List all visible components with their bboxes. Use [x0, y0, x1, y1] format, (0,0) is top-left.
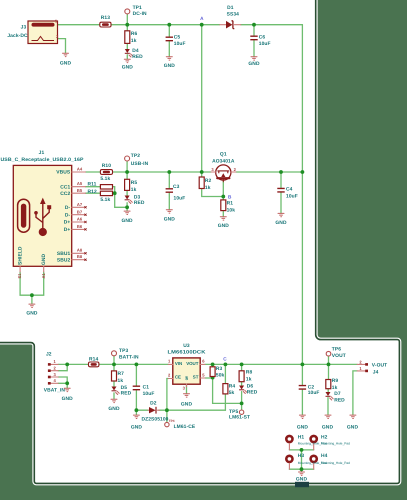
svg-text:10uF: 10uF — [308, 390, 320, 396]
svg-text:C3: C3 — [173, 184, 180, 190]
svg-text:D5: D5 — [121, 385, 128, 391]
svg-text:VBUS: VBUS — [56, 170, 71, 176]
svg-text:1k: 1k — [332, 385, 338, 391]
svg-text:10uF: 10uF — [286, 193, 298, 199]
svg-text:R9: R9 — [332, 378, 339, 384]
svg-text:10uF: 10uF — [259, 41, 271, 47]
svg-text:SBU2: SBU2 — [57, 257, 71, 263]
svg-text:TP5: TP5 — [229, 409, 238, 415]
svg-text:1k: 1k — [131, 187, 137, 193]
svg-text:A1: A1 — [41, 273, 46, 279]
svg-text:GND: GND — [122, 218, 134, 224]
svg-text:H3: H3 — [298, 453, 305, 459]
svg-text:C: C — [223, 357, 227, 362]
svg-text:R11: R11 — [88, 181, 97, 187]
svg-text:10k: 10k — [227, 208, 236, 214]
svg-text:V-OUT: V-OUT — [372, 362, 387, 368]
svg-text:GND: GND — [62, 396, 74, 402]
svg-text:D-: D- — [65, 205, 71, 211]
svg-text:USB_C_Receptacle_USB2.0_16P: USB_C_Receptacle_USB2.0_16P — [1, 157, 85, 163]
svg-text:D2: D2 — [150, 401, 157, 407]
svg-text:LM66100DCK: LM66100DCK — [168, 350, 206, 356]
svg-text:CC1: CC1 — [60, 184, 70, 190]
svg-text:CE: CE — [175, 375, 181, 380]
svg-text:SS34: SS34 — [227, 12, 240, 18]
svg-text:TP3: TP3 — [119, 348, 128, 354]
svg-text:5.1k: 5.1k — [100, 197, 110, 203]
svg-text:U3: U3 — [183, 343, 190, 349]
svg-text:D-: D- — [65, 212, 71, 218]
svg-text:VIN: VIN — [175, 361, 182, 366]
svg-text:SHIELD: SHIELD — [18, 246, 24, 265]
svg-text:R3: R3 — [216, 366, 223, 372]
svg-text:RED: RED — [247, 390, 258, 396]
svg-text:USB-IN: USB-IN — [131, 161, 149, 167]
svg-text:1k: 1k — [118, 378, 124, 384]
svg-text:10uF: 10uF — [143, 391, 155, 397]
svg-text:GND: GND — [164, 63, 176, 69]
svg-text:B8: B8 — [77, 254, 83, 259]
svg-text:10uF: 10uF — [174, 196, 186, 202]
svg-text:R4: R4 — [229, 384, 236, 390]
svg-text:GND: GND — [108, 406, 120, 412]
svg-text:A8: A8 — [77, 248, 83, 253]
svg-text:SBU1: SBU1 — [57, 251, 71, 257]
svg-text:GND: GND — [122, 65, 134, 71]
svg-text:S1: S1 — [17, 273, 22, 279]
svg-text:A6: A6 — [77, 217, 83, 222]
svg-text:LM61-CE: LM61-CE — [174, 424, 196, 430]
svg-text:RED: RED — [334, 398, 345, 404]
svg-text:B5: B5 — [77, 188, 83, 193]
svg-text:1k: 1k — [205, 185, 211, 191]
svg-text:GND: GND — [322, 425, 334, 431]
svg-text:5k: 5k — [229, 390, 235, 396]
svg-text:GND: GND — [26, 311, 38, 317]
svg-text:RED: RED — [132, 54, 143, 60]
svg-text:C2: C2 — [308, 384, 315, 390]
svg-text:D7: D7 — [334, 391, 341, 397]
svg-text:TP6: TP6 — [332, 347, 341, 353]
svg-text:§: § — [185, 375, 188, 381]
svg-text:DC-IN: DC-IN — [133, 11, 147, 17]
svg-text:R5: R5 — [131, 180, 138, 186]
svg-text:D6: D6 — [247, 383, 254, 389]
svg-text:Mounting_Hole_Pad: Mounting_Hole_Pad — [321, 441, 350, 445]
svg-text:GND: GND — [131, 425, 143, 431]
svg-text:TP4: TP4 — [169, 419, 175, 423]
svg-text:DZ2S05100: DZ2S05100 — [142, 416, 169, 422]
svg-text:H1: H1 — [298, 434, 305, 440]
svg-text:H4: H4 — [321, 453, 328, 459]
svg-text:GND: GND — [60, 61, 72, 67]
svg-text:J2: J2 — [46, 352, 52, 358]
svg-text:D4: D4 — [132, 48, 139, 54]
svg-text:GND: GND — [275, 220, 287, 226]
svg-text:VOUT: VOUT — [186, 361, 199, 366]
svg-text:ST: ST — [193, 375, 199, 380]
svg-text:B6: B6 — [77, 224, 83, 229]
svg-text:A4: A4 — [77, 166, 83, 171]
svg-text:R1: R1 — [227, 201, 234, 207]
svg-text:R12: R12 — [88, 189, 97, 195]
svg-text:R6: R6 — [131, 31, 138, 37]
svg-text:D3: D3 — [134, 194, 141, 200]
svg-text:R8: R8 — [246, 369, 253, 375]
svg-text:GND: GND — [41, 253, 47, 265]
svg-text:CC2: CC2 — [60, 191, 70, 197]
svg-text:A5: A5 — [77, 181, 83, 186]
svg-text:D+: D+ — [64, 220, 71, 226]
svg-text:RED: RED — [134, 200, 145, 206]
svg-text:R2: R2 — [205, 178, 212, 184]
svg-text:H2: H2 — [321, 434, 328, 440]
svg-text:R10: R10 — [102, 163, 111, 169]
svg-text:R13: R13 — [101, 15, 110, 21]
svg-text:AO3401A: AO3401A — [212, 159, 235, 165]
svg-text:C1: C1 — [143, 385, 150, 391]
svg-text:R7: R7 — [118, 371, 125, 377]
svg-text:GND: GND — [248, 61, 260, 67]
svg-text:B7: B7 — [77, 209, 83, 214]
svg-text:C4: C4 — [286, 187, 293, 193]
svg-text:1k: 1k — [131, 38, 137, 44]
svg-text:GND: GND — [164, 216, 176, 222]
svg-text:GND: GND — [218, 223, 230, 229]
svg-text:5.1k: 5.1k — [100, 176, 110, 182]
svg-text:Mounting_Hole_Pad: Mounting_Hole_Pad — [321, 461, 350, 465]
svg-text:GND: GND — [347, 425, 359, 431]
svg-text:VOUT: VOUT — [332, 353, 346, 359]
svg-text:Q1: Q1 — [220, 151, 227, 157]
svg-text:GND: GND — [297, 425, 309, 431]
svg-text:VBAT_IN: VBAT_IN — [44, 388, 66, 394]
svg-text:C5: C5 — [174, 35, 181, 41]
svg-text:RED: RED — [121, 391, 132, 397]
svg-text:C6: C6 — [259, 34, 266, 40]
svg-text:R14: R14 — [89, 356, 98, 362]
svg-text:10uF: 10uF — [174, 41, 186, 47]
svg-text:D+: D+ — [64, 227, 71, 233]
svg-text:J4: J4 — [373, 370, 379, 376]
svg-text:TP1: TP1 — [133, 5, 142, 11]
svg-text:1k: 1k — [246, 376, 252, 382]
svg-text:GND: GND — [181, 402, 193, 408]
svg-text:50k: 50k — [216, 373, 225, 379]
svg-text:BATT-IN: BATT-IN — [119, 354, 139, 360]
svg-text:J1: J1 — [39, 150, 45, 156]
svg-text:D1: D1 — [227, 5, 234, 11]
svg-text:A7: A7 — [77, 202, 83, 207]
svg-text:TP2: TP2 — [131, 153, 140, 159]
svg-text:LM61-ST: LM61-ST — [229, 415, 250, 421]
svg-text:J3: J3 — [21, 24, 27, 30]
svg-text:Jack-DC: Jack-DC — [7, 33, 28, 39]
